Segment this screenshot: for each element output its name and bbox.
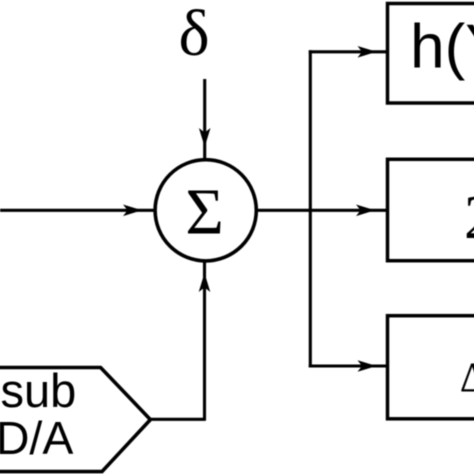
svg-text:Δ: Δ bbox=[460, 355, 474, 401]
wire branch to bottom box bbox=[309, 364, 387, 367]
arrowhead into middle box bbox=[356, 205, 375, 217]
wire summer output to middle box bbox=[256, 209, 387, 212]
svg-text:δ: δ bbox=[179, 0, 210, 70]
box Delta bottom bbox=[388, 316, 474, 419]
wire feedback horizontal bbox=[150, 418, 204, 421]
summer circle bbox=[155, 160, 256, 261]
svg-text:2: 2 bbox=[464, 184, 474, 252]
arrowhead into summer top bbox=[199, 128, 211, 147]
arrowhead into bottom box bbox=[358, 360, 377, 372]
arrowhead into summer left bbox=[123, 205, 142, 217]
svg-text:D/A: D/A bbox=[0, 412, 73, 464]
wire feedback vertical bbox=[203, 262, 206, 421]
box h(Y top bbox=[388, 4, 474, 104]
wire delta input vertical bbox=[203, 79, 206, 159]
svg-text:h(Y: h(Y bbox=[410, 12, 474, 81]
svg-text:sub: sub bbox=[1, 364, 77, 417]
wire branch to top box bbox=[309, 50, 387, 53]
arrowhead into top box bbox=[358, 46, 377, 58]
wire branch vertical bbox=[309, 50, 312, 367]
D/A converter pentagon bbox=[0, 368, 150, 472]
box 2 middle bbox=[388, 159, 474, 260]
wire main input horizontal bbox=[0, 209, 154, 212]
svg-text:Σ: Σ bbox=[185, 176, 223, 249]
arrowhead into summer bottom bbox=[199, 273, 211, 292]
